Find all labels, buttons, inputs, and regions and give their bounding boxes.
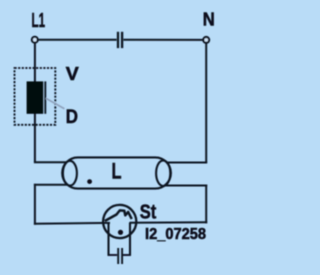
svg-text:L: L — [112, 158, 122, 183]
svg-text:L1: L1 — [32, 10, 46, 32]
svg-text:I2_07258: I2_07258 — [145, 226, 206, 243]
svg-text:V: V — [66, 63, 80, 84]
svg-text:D: D — [66, 106, 78, 128]
svg-text:N: N — [203, 8, 215, 29]
svg-text:St: St — [140, 201, 157, 223]
